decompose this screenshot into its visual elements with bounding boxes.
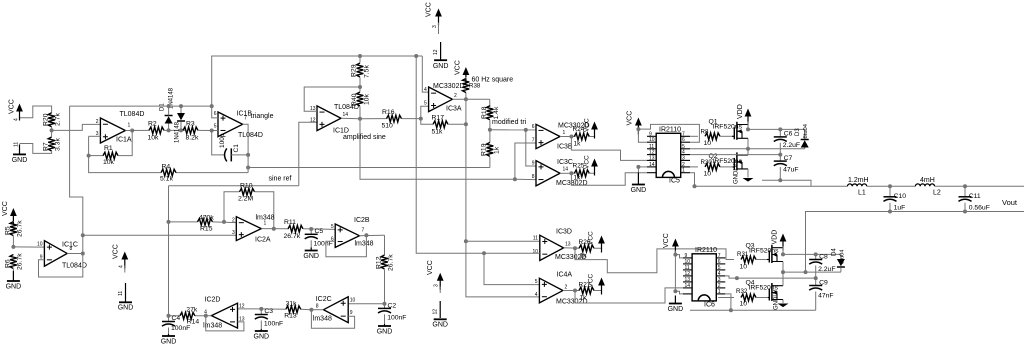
svg-text:11: 11 bbox=[14, 142, 20, 147]
node IC2B output bbox=[359, 234, 384, 237]
resistor R13 31k bbox=[301, 308, 312, 310]
svg-text:C4: C4 bbox=[172, 315, 181, 322]
node IC2C output bbox=[311, 309, 323, 311]
svg-text:IC2C: IC2C bbox=[316, 296, 332, 303]
svg-text:26.7k: 26.7k bbox=[388, 254, 395, 271]
svg-text:IC3D: IC3D bbox=[556, 229, 572, 236]
wire modified tri to IC3C + bbox=[526, 130, 536, 166]
wire bottom return rail bbox=[806, 212, 1024, 273]
ground below C3 bbox=[260, 329, 262, 331]
svg-text:1k: 1k bbox=[493, 146, 500, 154]
svg-text:sine ref: sine ref bbox=[269, 176, 292, 183]
svg-text:4: 4 bbox=[535, 292, 538, 298]
node IC2A output bbox=[261, 228, 289, 230]
svg-text:L1: L1 bbox=[858, 190, 866, 197]
svg-text:2.2M: 2.2M bbox=[238, 196, 253, 203]
svg-text:GNDLV: GNDLV bbox=[774, 290, 780, 310]
power VCC at IC5 bbox=[637, 121, 639, 135]
svg-text:R16: R16 bbox=[382, 109, 395, 116]
svg-text:MC3302D: MC3302D bbox=[433, 83, 465, 90]
svg-text:GND: GND bbox=[118, 305, 134, 312]
op-amp IC3A comparator bbox=[429, 87, 453, 112]
svg-text:triangle: triangle bbox=[251, 113, 274, 120]
svg-text:8: 8 bbox=[316, 304, 319, 310]
svg-text:R32: R32 bbox=[736, 288, 748, 295]
wire IC1C out to rail riser bbox=[70, 106, 83, 253]
svg-text:2: 2 bbox=[96, 119, 99, 125]
wire IC2D feedback bbox=[206, 316, 244, 331]
svg-text:10: 10 bbox=[704, 140, 712, 147]
resistor R3 8.2k bbox=[183, 127, 198, 134]
svg-text:14: 14 bbox=[685, 283, 691, 289]
svg-text:TL084D: TL084D bbox=[238, 132, 263, 139]
svg-text:3.3k: 3.3k bbox=[55, 138, 62, 151]
resistor R26 1k pullup bbox=[579, 245, 594, 252]
svg-text:C6: C6 bbox=[784, 131, 793, 138]
svg-text:R11: R11 bbox=[284, 219, 296, 226]
wire rail to IC1B + input bbox=[212, 106, 218, 118]
op-amp IC2D bbox=[211, 303, 237, 328]
svg-text:7.5k: 7.5k bbox=[364, 65, 371, 78]
op-amp IC1C buffer bbox=[44, 241, 67, 267]
svg-text:9: 9 bbox=[350, 310, 353, 316]
svg-text:GND: GND bbox=[254, 334, 270, 341]
wire rail to IC3A - input bbox=[422, 56, 428, 92]
svg-text:2: 2 bbox=[232, 218, 235, 224]
resistor R7 3.3k bbox=[51, 130, 53, 136]
svg-text:C11: C11 bbox=[969, 193, 981, 200]
svg-text:GND: GND bbox=[631, 187, 647, 194]
power VCC above R27 bbox=[601, 281, 603, 295]
power VCC top (pin 3) IC3A bbox=[438, 12, 440, 26]
node IC3D output bbox=[564, 247, 579, 250]
wire Q1 source to switch node bbox=[747, 138, 749, 149]
svg-text:12: 12 bbox=[433, 49, 439, 55]
svg-text:GND: GND bbox=[161, 339, 177, 346]
diode D3 8tu04 bbox=[804, 129, 806, 139]
IC IC6 IR2110 bbox=[692, 254, 716, 301]
wire midrail column to comparators bbox=[416, 56, 540, 253]
wire vertical filter feedback column bbox=[168, 186, 170, 316]
svg-text:510: 510 bbox=[382, 123, 394, 130]
resistor R30 gate 10 bbox=[690, 166, 698, 168]
svg-text:2.2uF: 2.2uF bbox=[818, 266, 835, 273]
svg-text:3: 3 bbox=[434, 284, 440, 287]
wire Q4 source to GNDLV 2 bbox=[782, 300, 784, 304]
op-amp IC2B bbox=[335, 224, 359, 247]
svg-text:C7: C7 bbox=[784, 155, 793, 162]
wire R16 node to IC3A + input bbox=[421, 106, 429, 118]
power VCC above R25 bbox=[594, 162, 596, 176]
capacitor C5 100nF bbox=[310, 229, 312, 234]
svg-text:IR2110: IR2110 bbox=[659, 127, 681, 134]
svg-text:8tu04: 8tu04 bbox=[840, 249, 846, 264]
svg-text:GND: GND bbox=[433, 63, 449, 70]
wire Q4 drain to switch node 2 bbox=[782, 272, 784, 286]
ground GND (pin 11) IC2 bbox=[125, 283, 127, 302]
ground at IC6 bbox=[674, 296, 676, 304]
svg-text:9: 9 bbox=[532, 161, 535, 167]
svg-text:8.2k: 8.2k bbox=[186, 135, 199, 142]
svg-text:1: 1 bbox=[682, 168, 685, 174]
svg-text:VDD: VDD bbox=[737, 104, 744, 119]
wire VCC divider mid bbox=[12, 211, 14, 225]
resistor R19 1k bbox=[489, 130, 491, 143]
ground below C2 bbox=[384, 324, 386, 326]
svg-text:C1: C1 bbox=[233, 144, 240, 153]
resistor R25 1k pullup bbox=[574, 170, 589, 177]
wire GND to IC5 VSS bbox=[638, 166, 647, 168]
resistor R27 1k pullup bbox=[579, 287, 594, 294]
op-amp IC3C comparator bbox=[536, 161, 560, 186]
svg-text:10: 10 bbox=[740, 264, 748, 271]
svg-text:IC3A: IC3A bbox=[446, 106, 462, 113]
wire R7 to GND pin bbox=[20, 144, 52, 154]
capacitor C2 100nF bbox=[384, 304, 386, 309]
power VCC (pin 4) IC2 bbox=[124, 255, 126, 269]
resistor R5 26.7k bbox=[12, 221, 14, 222]
wire reference rail upper bbox=[212, 56, 423, 106]
node IC1D output bbox=[341, 117, 360, 120]
svg-text:13: 13 bbox=[649, 155, 655, 161]
svg-text:C3: C3 bbox=[264, 308, 273, 315]
svg-text:VDD: VDD bbox=[772, 230, 779, 245]
resistor R8 gate 10 bbox=[690, 135, 698, 137]
capacitor C6 2.2uF bbox=[779, 129, 781, 137]
svg-text:4mH: 4mH bbox=[920, 177, 935, 184]
resistor R38 pullup bbox=[465, 93, 467, 100]
resistor R2 10k bbox=[149, 127, 164, 134]
op-amp IC2C bbox=[324, 297, 349, 323]
diode D4 8tu04 bbox=[840, 254, 842, 259]
svg-text:R13: R13 bbox=[284, 313, 297, 320]
op-amp IC4A comparator bbox=[539, 278, 563, 303]
svg-text:GND: GND bbox=[668, 306, 684, 313]
op-amp IC1D bbox=[317, 106, 341, 131]
resistor R31 gate 10 bbox=[741, 256, 756, 263]
svg-text:26.7k: 26.7k bbox=[284, 233, 301, 240]
svg-text:6: 6 bbox=[214, 111, 217, 117]
svg-text:R30: R30 bbox=[701, 159, 713, 166]
wire to IC3C - input bbox=[515, 178, 536, 180]
svg-text:13: 13 bbox=[565, 242, 571, 248]
power VDD lower bridge bbox=[782, 237, 784, 251]
wire to IC3B + input bbox=[515, 143, 536, 179]
resistor R1 10k bbox=[89, 155, 103, 157]
svg-text:IC2B: IC2B bbox=[354, 217, 370, 224]
svg-text:IC1A: IC1A bbox=[116, 137, 132, 144]
inductor L2 4mH bbox=[890, 185, 915, 187]
svg-text:R8: R8 bbox=[701, 129, 709, 136]
node IC1B - input bbox=[212, 130, 218, 132]
svg-text:VCC: VCC bbox=[584, 155, 591, 169]
svg-text:47uF: 47uF bbox=[783, 167, 799, 174]
node IC1B output column bbox=[243, 124, 249, 172]
svg-text:10: 10 bbox=[350, 298, 356, 304]
svg-text:R6: R6 bbox=[4, 259, 11, 268]
resistor R17 51k bbox=[421, 119, 433, 125]
wire VB2 row to D4 bbox=[783, 253, 841, 255]
resistor R14 27k bbox=[195, 315, 206, 317]
wire IC3C out to IC5 bbox=[571, 173, 647, 186]
svg-text:10: 10 bbox=[649, 137, 655, 143]
svg-text:C5: C5 bbox=[315, 228, 324, 235]
svg-text:12: 12 bbox=[239, 304, 245, 310]
svg-text:8tu04: 8tu04 bbox=[803, 123, 809, 138]
wire square wave column bbox=[466, 99, 540, 297]
wire GND to IC6 VSS bbox=[675, 291, 683, 294]
capacitor C11 0.56uF bbox=[963, 184, 967, 188]
svg-text:TL084D: TL084D bbox=[120, 111, 145, 118]
svg-text:amplified sine: amplified sine bbox=[343, 134, 386, 141]
svg-text:R31: R31 bbox=[737, 251, 749, 258]
svg-text:R1: R1 bbox=[104, 145, 113, 152]
resistor R40 10k bbox=[359, 87, 361, 92]
svg-text:4: 4 bbox=[14, 118, 20, 121]
svg-text:470k: 470k bbox=[199, 214, 214, 221]
svg-text:VCC: VCC bbox=[627, 111, 634, 126]
ground below R6 bbox=[12, 271, 14, 281]
resistor R18 1.4k bbox=[489, 99, 491, 107]
svg-text:2.7k: 2.7k bbox=[55, 113, 62, 126]
svg-text:IC2D: IC2D bbox=[205, 297, 221, 304]
svg-text:GND: GND bbox=[377, 329, 393, 336]
wire IC4A out to IC6 bbox=[575, 288, 683, 303]
op-amp IC1B integrator bbox=[218, 112, 243, 137]
svg-text:2.2uF: 2.2uF bbox=[783, 142, 800, 149]
node IC2D output bbox=[206, 315, 212, 317]
ground GND (pin 12) top bbox=[440, 42, 442, 60]
svg-text:GND: GND bbox=[12, 157, 28, 164]
svg-text:1N4148: 1N4148 bbox=[175, 121, 181, 143]
wire clamp rail bbox=[70, 105, 212, 107]
svg-text:6: 6 bbox=[682, 137, 685, 143]
wire Q2 source to GNDLV bbox=[747, 169, 749, 178]
svg-text:10k: 10k bbox=[364, 93, 371, 105]
resistor R6 26.7k bbox=[10, 255, 17, 269]
svg-text:100nF: 100nF bbox=[387, 315, 406, 322]
svg-text:4: 4 bbox=[424, 87, 427, 93]
svg-text:IC5: IC5 bbox=[669, 178, 680, 185]
svg-text:R15: R15 bbox=[200, 226, 213, 233]
svg-text:GND: GND bbox=[6, 284, 22, 291]
svg-text:14: 14 bbox=[649, 162, 655, 168]
power VDD upper bridge bbox=[747, 112, 749, 126]
svg-text:GND: GND bbox=[432, 322, 448, 329]
svg-text:VCC: VCC bbox=[9, 99, 16, 114]
svg-text:1: 1 bbox=[563, 130, 566, 136]
resistor R24 1k pullup bbox=[574, 133, 589, 140]
wire Q2 drain to switch node bbox=[747, 149, 749, 155]
wire C7 output coupling bbox=[762, 180, 811, 186]
svg-text:R12: R12 bbox=[376, 256, 383, 269]
svg-text:R4: R4 bbox=[162, 163, 171, 170]
wire VCC divider top-left bbox=[20, 106, 52, 118]
capacitor C1 100p bbox=[212, 131, 225, 155]
op-amp IC2A bbox=[236, 217, 261, 241]
wire divider to IC1C + bbox=[13, 246, 44, 248]
wire IC1D - feedback loop bbox=[304, 87, 360, 111]
svg-text:VCC: VCC bbox=[427, 260, 434, 275]
power VCC above R24 bbox=[594, 125, 596, 139]
wire IC1A - input feedback bbox=[89, 135, 101, 137]
power VCC (pin 4) top-left bbox=[19, 107, 21, 121]
wire ground run lower bbox=[690, 309, 731, 311]
resistor R16 510 bbox=[360, 118, 387, 120]
resistor R11 26.7k bbox=[288, 225, 303, 232]
node IC1A output bbox=[125, 129, 149, 131]
svg-text:26.7k: 26.7k bbox=[16, 220, 23, 237]
svg-text:D4: D4 bbox=[832, 248, 838, 256]
wire sine ref riser to IC1D + bbox=[299, 122, 317, 186]
wire Q3 source to switch node 2 bbox=[782, 262, 784, 273]
resistor R20 2.7k bbox=[48, 113, 55, 127]
svg-text:R18: R18 bbox=[481, 106, 488, 119]
svg-text:1: 1 bbox=[718, 289, 721, 295]
wire switch node 2 row bbox=[783, 271, 841, 273]
svg-text:1: 1 bbox=[128, 123, 131, 129]
svg-text:VCC: VCC bbox=[663, 233, 670, 248]
ground below C4 bbox=[168, 334, 170, 336]
svg-text:6: 6 bbox=[532, 124, 535, 130]
svg-text:L2: L2 bbox=[933, 190, 941, 197]
resistor R4 5.1k feedback bbox=[176, 172, 248, 174]
capacitor C10 1uF bbox=[888, 184, 892, 188]
svg-text:VCC: VCC bbox=[2, 201, 9, 216]
svg-text:VCC: VCC bbox=[426, 2, 433, 17]
svg-text:C2: C2 bbox=[388, 303, 397, 310]
wire buffered ref to IC2A + bbox=[83, 234, 237, 236]
node divider junction bbox=[51, 127, 53, 130]
node IC3C output bbox=[560, 172, 576, 174]
wire IC2B feedback bbox=[326, 235, 367, 257]
node IC1C output bbox=[67, 253, 83, 255]
svg-text:IC4A: IC4A bbox=[557, 272, 573, 279]
svg-text:VCC: VCC bbox=[584, 118, 591, 132]
svg-text:12: 12 bbox=[310, 118, 316, 124]
svg-text:7: 7 bbox=[244, 116, 247, 122]
svg-text:modified tri: modified tri bbox=[492, 119, 527, 126]
capacitor C9 47nF bbox=[815, 278, 817, 285]
svg-text:3: 3 bbox=[682, 155, 685, 161]
wire IC6 VS row to C8C9 node bbox=[725, 276, 815, 278]
IC IC5 IR2110 bbox=[656, 133, 681, 177]
svg-text:11: 11 bbox=[533, 236, 538, 242]
power VCC at IC6 bbox=[674, 242, 676, 256]
svg-text:R20: R20 bbox=[43, 113, 50, 126]
op-amp IC3B comparator bbox=[536, 124, 560, 148]
svg-text:VCC: VCC bbox=[588, 231, 595, 245]
svg-text:11: 11 bbox=[118, 291, 124, 296]
wire IC1C feedback bbox=[39, 254, 83, 278]
resistor R29 7.5k bbox=[359, 56, 361, 63]
ground GND (pin 12) IC3 bbox=[439, 301, 441, 318]
transistor Q3 IRF520n bbox=[767, 259, 769, 261]
resistor R32 gate 10 bbox=[718, 297, 734, 299]
svg-text:1k: 1k bbox=[580, 295, 588, 302]
svg-text:2: 2 bbox=[454, 93, 457, 99]
svg-text:10k: 10k bbox=[148, 135, 160, 142]
resistor R15 470k bbox=[169, 221, 198, 223]
wire IC6 COM row to C9 bottom bbox=[725, 294, 815, 310]
svg-text:C10: C10 bbox=[894, 193, 907, 200]
svg-text:47nF: 47nF bbox=[818, 292, 834, 299]
svg-text:1.4k: 1.4k bbox=[493, 106, 500, 119]
svg-text:5: 5 bbox=[535, 279, 538, 285]
svg-text:1.2mH: 1.2mH bbox=[848, 177, 869, 184]
wire switch node row bbox=[690, 148, 805, 150]
wire C2 node to IC2C + bbox=[348, 303, 384, 305]
wire C3 node to IC2D + bbox=[238, 308, 262, 310]
svg-text:1k: 1k bbox=[574, 141, 582, 148]
svg-text:100p: 100p bbox=[219, 133, 226, 148]
svg-text:10: 10 bbox=[37, 242, 43, 248]
svg-text:5: 5 bbox=[424, 101, 427, 107]
svg-text:R38: R38 bbox=[469, 83, 481, 90]
svg-text:10k: 10k bbox=[103, 159, 115, 166]
node IC3A output bbox=[452, 98, 489, 100]
svg-text:VCC: VCC bbox=[455, 60, 462, 75]
diode D1 1N4148 bbox=[168, 123, 170, 130]
svg-text:60 Hz square: 60 Hz square bbox=[472, 77, 514, 84]
svg-text:GND: GND bbox=[303, 253, 319, 260]
svg-text:8: 8 bbox=[70, 246, 73, 252]
power VCC above R38 bbox=[465, 70, 467, 84]
svg-text:26.7k: 26.7k bbox=[16, 253, 23, 270]
ground below C5 bbox=[310, 248, 312, 251]
svg-text:VCC: VCC bbox=[588, 273, 595, 287]
transistor Q1 IRF520n bbox=[732, 135, 734, 137]
svg-text:R40: R40 bbox=[351, 93, 358, 106]
wire modified tri to IC3B - bbox=[490, 129, 536, 131]
op-amp IC3D comparator bbox=[540, 235, 564, 260]
svg-text:27k: 27k bbox=[186, 307, 198, 314]
wire sine ref row bbox=[169, 185, 299, 187]
svg-text:1k: 1k bbox=[580, 253, 588, 260]
svg-text:14: 14 bbox=[343, 112, 349, 118]
wire IC5 COM to output rail bbox=[690, 173, 811, 187]
resistor R12 26.7k bbox=[384, 235, 386, 255]
svg-text:7: 7 bbox=[532, 138, 535, 144]
svg-text:R19: R19 bbox=[480, 143, 487, 156]
wire to IC3D + input bbox=[466, 240, 540, 242]
wire to IC4A + input bbox=[484, 253, 539, 284]
svg-text:3: 3 bbox=[432, 25, 438, 28]
svg-text:lm348: lm348 bbox=[313, 316, 332, 323]
capacitor C4 100nF bbox=[168, 316, 170, 322]
node IC3B output bbox=[560, 136, 576, 138]
wire IC3D out to IC6 bbox=[575, 248, 734, 272]
svg-text:R5: R5 bbox=[4, 226, 11, 235]
svg-text:GNDLV: GNDLV bbox=[734, 164, 740, 184]
svg-text:Vout: Vout bbox=[1002, 198, 1018, 207]
svg-text:VCC: VCC bbox=[113, 244, 120, 259]
wire VB row to D3 bbox=[748, 128, 805, 130]
svg-text:1: 1 bbox=[264, 221, 267, 227]
svg-text:lm348: lm348 bbox=[355, 241, 374, 248]
svg-text:IC6: IC6 bbox=[704, 302, 715, 309]
svg-text:D1: D1 bbox=[160, 103, 166, 111]
svg-text:0.56uF: 0.56uF bbox=[969, 205, 990, 212]
svg-text:R2: R2 bbox=[148, 121, 157, 128]
svg-text:R29: R29 bbox=[351, 64, 358, 77]
svg-text:IR2110: IR2110 bbox=[695, 247, 717, 254]
wire divider to IC1A + bbox=[52, 124, 101, 130]
wire sine raw to R19 bbox=[248, 167, 490, 169]
wire IC5 VS row to C6C7 node bbox=[690, 154, 780, 156]
svg-text:1uF: 1uF bbox=[894, 205, 906, 212]
svg-text:51k: 51k bbox=[432, 129, 444, 136]
